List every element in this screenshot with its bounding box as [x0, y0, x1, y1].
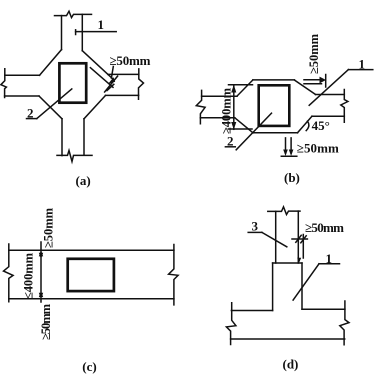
dim arrow lines top (b): [304, 80, 322, 84]
left end break (c): [4, 244, 14, 302]
dim arrowhead right (b): [320, 77, 327, 84]
svg-text:1: 1: [98, 17, 105, 32]
column A bottom right line: [83, 119, 85, 155]
bottom dim arrow 1 (b): [283, 150, 288, 157]
beam left top edge: [5, 74, 40, 76]
label 3 leader (d): [262, 232, 287, 246]
right end break (c): [169, 245, 179, 305]
joint zone rectangle (c): [68, 259, 114, 291]
break line top of column (d): [268, 207, 300, 215]
joint zone rectangle (a): [59, 63, 86, 102]
joint tick crossing leader (b): [325, 75, 327, 88]
beam left end break: [1, 69, 7, 98]
label 2 leader line: [37, 89, 72, 119]
strip bottom edge right (b): [312, 115, 344, 117]
joint zone rectangle (b): [259, 85, 290, 126]
chamfer bottom-left (b): [235, 118, 253, 133]
strip top edge left (b): [202, 95, 237, 97]
svg-text:45°: 45°: [312, 118, 330, 133]
arrowhead at joint: [108, 77, 115, 84]
dim arrows top gap (c): [39, 250, 43, 256]
svg-text:≤400mm: ≤400mm: [22, 252, 36, 299]
svg-text:(b): (b): [284, 170, 300, 185]
svg-text:(d): (d): [283, 357, 299, 372]
haunch flare top-right extended: [82, 51, 112, 79]
dim arrow up (b): [231, 85, 236, 93]
label 1 underline (d): [319, 263, 340, 265]
chamfer bottom-right (b): [298, 116, 313, 133]
dim arrow down (d): [297, 258, 301, 263]
column left line (d): [275, 211, 277, 263]
haunch flare bottom-left: [39, 96, 62, 119]
widened top edge (b): [253, 79, 295, 81]
bottom dim tick 1 (b): [285, 138, 287, 153]
label 2 underline: [27, 118, 37, 120]
strip top edge right (b): [316, 94, 345, 96]
beam top edge (c): [9, 249, 174, 251]
footing left side with break (d): [226, 303, 236, 345]
svg-text:≥50mm: ≥50mm: [42, 207, 56, 248]
joint cross marks (d): [296, 235, 306, 243]
pedestal left side (d): [272, 263, 274, 311]
label 1 leader tick: [75, 30, 77, 35]
bottom dim arrow 2 (b): [289, 150, 294, 157]
column A top right line: [81, 14, 83, 50]
break line top of column A: [55, 11, 92, 17]
label 1 underline (b): [348, 69, 372, 71]
svg-text:3: 3: [252, 219, 259, 234]
chamfer top-right (b): [294, 80, 315, 95]
label 1 leader / joint line 45deg (b): [309, 70, 348, 106]
pedestal right side (d): [301, 263, 303, 309]
dimension line vertical (c): [40, 242, 42, 302]
beam right top edge: [108, 73, 139, 75]
svg-text:≥400mm: ≥400mm: [220, 87, 234, 134]
pedestal top edge (d): [273, 262, 302, 264]
dimension line >=400mm (b): [233, 85, 235, 129]
left end break (b): [196, 90, 205, 123]
svg-text:≥50mm: ≥50mm: [110, 53, 151, 68]
label 2 leader (b): [236, 113, 271, 150]
label 1 leader line: [76, 31, 117, 33]
beam right bottom edge: [106, 94, 139, 96]
dim arrow down (b): [231, 122, 236, 130]
label 2 underline (b): [225, 146, 235, 148]
bottom dim tick 2 (b): [290, 138, 292, 153]
footing right side with break (d): [340, 301, 349, 345]
dimension leader to joint: [111, 67, 113, 79]
svg-text:≥50mm: ≥50mm: [305, 220, 344, 235]
svg-text:(a): (a): [76, 173, 91, 188]
construction joint line at 45 deg: [90, 68, 113, 88]
haunch flare top-left: [40, 50, 62, 76]
dim line joint to footing (d): [302, 235, 304, 259]
chamfer top-left (b): [237, 80, 253, 96]
column A top left line: [61, 16, 63, 50]
footing bottom line (d): [231, 338, 345, 340]
haunch flare bottom-right: [84, 95, 106, 118]
bottom dim baseline (b): [281, 155, 297, 157]
footing top edge right (d): [302, 308, 345, 310]
angle arc (b): [306, 121, 309, 130]
break line bottom of column A: [57, 151, 92, 162]
column A bottom left line: [61, 119, 63, 156]
extension line top (b): [229, 84, 253, 86]
footing top edge left (d): [231, 310, 272, 312]
column right line (d): [297, 211, 299, 263]
svg-text:≥50mm: ≥50mm: [307, 33, 321, 74]
svg-text:≥50mm: ≥50mm: [297, 141, 339, 156]
svg-text:(c): (c): [82, 359, 96, 374]
widened bottom edge (b): [253, 132, 298, 134]
strip bottom edge left (b): [200, 117, 234, 119]
svg-text:≥50mm: ≥50mm: [39, 303, 53, 340]
label 3 underline (d): [248, 231, 262, 233]
joint cross stroke: [105, 76, 118, 92]
extension line bottom (b): [228, 128, 252, 130]
dim arrows bottom gap (c): [39, 291, 43, 297]
beam bottom edge (c): [9, 298, 174, 300]
construction joint line (d): [292, 238, 307, 240]
label 1 leader (d): [293, 264, 319, 300]
right end break (b): [341, 90, 348, 123]
beam right end break: [139, 69, 144, 99]
beam left bottom edge: [5, 95, 39, 97]
